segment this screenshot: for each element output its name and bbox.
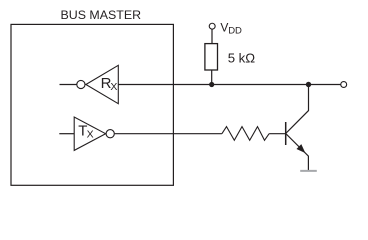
label VDD: [220, 21, 242, 37]
RX triangle: [86, 65, 118, 103]
BUS MASTER box: [11, 24, 173, 185]
buffer RX (receiver, inverter pointing left with input bubble): [60, 65, 119, 103]
svg-text:5 kΩ: 5 kΩ: [228, 50, 256, 65]
wire TX internal stub: [59, 133, 74, 135]
wire: RX net (node line from RX buffer to right terminal): [118, 84, 340, 86]
wire: VDD to resistor: [211, 29, 213, 43]
svg-text:BUS MASTER: BUS MASTER: [61, 8, 142, 22]
right terminal (bus I/O): [341, 82, 347, 88]
transistor Q1 (NPN open collector): [286, 85, 309, 171]
VDD terminal: [209, 23, 215, 29]
svg-text:X: X: [110, 81, 117, 93]
collector lead: [286, 85, 309, 134]
TX output bubble: [106, 130, 114, 138]
wire: TX output to base resistor: [115, 133, 222, 135]
buffer TX (driver, inverter pointing right with output bubble): [59, 117, 114, 150]
resistor R pull-up (box style): [205, 44, 218, 70]
svg-text:X: X: [87, 129, 94, 141]
ground: [300, 170, 317, 172]
TX triangle: [74, 117, 105, 150]
RX input bubble: [77, 80, 85, 88]
base bar: [285, 122, 287, 145]
wire: base resistor to transistor base: [269, 133, 286, 135]
emitter arrowhead: [297, 145, 305, 153]
wire RX internal stub: [60, 84, 77, 86]
resistor (base series, zigzag): [222, 127, 269, 141]
junction dot at collector node: [306, 82, 311, 87]
wire: resistor to node: [211, 70, 213, 85]
junction dot at pull-up node: [209, 82, 214, 87]
emitter lead: [286, 134, 309, 171]
svg-text:DD: DD: [228, 25, 242, 36]
